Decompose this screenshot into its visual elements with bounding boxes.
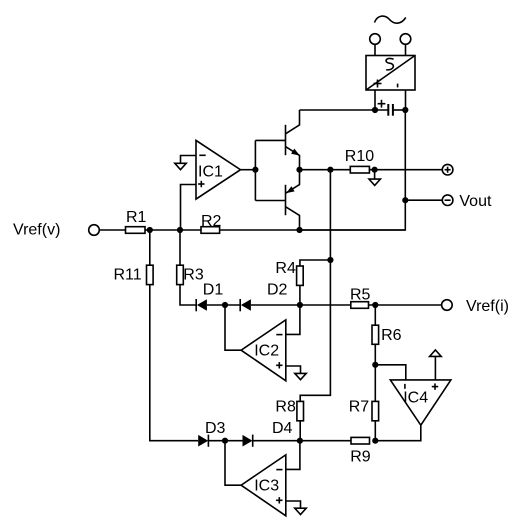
wire right vertical to Vout minus node — [404, 110, 406, 200]
wire feedback vertical line — [300, 170, 330, 402]
junction R10 rail / feedback tap — [327, 167, 333, 173]
AC wave symbol — [375, 16, 406, 23]
svg-text:Vref(i): Vref(i) — [466, 298, 509, 315]
svg-text:IC1: IC1 — [198, 163, 223, 180]
svg-text:R1: R1 — [126, 209, 147, 226]
wire IC4 inverting input to node F — [375, 365, 406, 380]
junction R10 right / ground tap — [372, 167, 378, 173]
terminal AC left — [370, 34, 381, 56]
wire D1 to node C — [207, 304, 240, 306]
op-amp IC4 — [390, 380, 451, 425]
wire IC4 non-inverting input up — [434, 356, 436, 380]
svg-text:D1: D1 — [203, 282, 224, 299]
junction node H (D4/R8/IC3-) — [297, 438, 303, 444]
wire IC1 inverting input — [181, 156, 197, 164]
wire D2 to R5 — [251, 304, 351, 306]
junction node B (R2/R3/IC1+) — [177, 227, 183, 233]
wire R3 branch down — [179, 230, 181, 265]
wire R4 top to feedback line — [300, 260, 331, 266]
junction node D (D2/R4/IC2-) — [297, 302, 303, 308]
wire base feed vertical — [254, 140, 256, 200]
wire Vout minus terminal lead — [405, 199, 442, 201]
svg-text:IC2: IC2 — [254, 342, 279, 359]
wire IC2 output up to node C — [225, 305, 241, 350]
wire IC1 output — [241, 169, 256, 171]
wire R1 to node B — [145, 229, 201, 231]
resistor R11 — [114, 265, 154, 284]
resistor R9 — [350, 437, 371, 465]
power supply PS1 (AC/DC converter box) — [366, 56, 415, 91]
svg-text:D3: D3 — [205, 420, 226, 437]
junction IC1 output / base feed — [252, 167, 258, 173]
junction R9 right node — [372, 438, 378, 444]
wire IC3 non-inverting input to ground — [286, 501, 301, 508]
svg-text:Vref(v): Vref(v) — [13, 221, 60, 238]
svg-text:R6: R6 — [381, 327, 402, 344]
terminal Vout plus — [442, 164, 453, 175]
resistor R10 — [345, 148, 374, 173]
diode D1 — [196, 282, 223, 312]
wire R5 to Vref(i) terminal — [369, 304, 442, 306]
svg-text:R8: R8 — [275, 399, 296, 416]
svg-text:R5: R5 — [350, 287, 371, 304]
svg-text:R7: R7 — [349, 399, 370, 416]
wire D3 to node G — [208, 440, 242, 442]
svg-text:IC4: IC4 — [403, 389, 428, 406]
wire IC2 inverting input up to node D — [286, 305, 300, 334]
resistor R8 — [275, 399, 303, 421]
svg-text:D2: D2 — [267, 282, 288, 299]
wire R6 branch down — [374, 305, 376, 325]
wire D4 to R9 — [253, 440, 351, 442]
svg-text:IC3: IC3 — [254, 477, 279, 494]
svg-text:R11: R11 — [114, 266, 142, 283]
diode D2 — [240, 282, 287, 312]
wire R10 ground stem — [374, 170, 376, 179]
svg-text:D4: D4 — [272, 420, 293, 437]
diode D3 — [198, 420, 225, 447]
resistor R2 — [201, 213, 222, 233]
junction Q2 collector on bottom rail — [296, 227, 302, 233]
ground IC3 — [295, 508, 306, 514]
wire capacitor to right node — [394, 109, 406, 111]
junction node C (D1/D2/IC2 out) — [222, 302, 228, 308]
terminal AC right — [400, 34, 411, 56]
svg-text:R2: R2 — [201, 213, 222, 230]
junction Vout minus node — [402, 197, 408, 203]
terminal Vout minus — [442, 195, 453, 206]
wire R4 branch up — [299, 285, 301, 305]
ground IC1 — [175, 163, 186, 169]
svg-text:R4: R4 — [275, 260, 296, 277]
wire Vout minus node down and left along bottom rail — [300, 200, 406, 230]
junction emitters node — [296, 167, 302, 173]
svg-text:R10: R10 — [345, 148, 374, 165]
wire collector rail to capacitor — [300, 109, 388, 111]
wire PS1 right output down — [405, 90, 407, 110]
wire IC3 inverting input up to node H — [286, 441, 300, 470]
junction capacitor left — [372, 107, 378, 113]
junction node G (D3/D4/IC3 out) — [222, 438, 228, 444]
wire emitters node to plus terminal — [300, 169, 443, 171]
capacitor C1 (polarized) — [378, 100, 393, 116]
terminal Vref(v) — [89, 225, 100, 236]
op-amp IC1 — [196, 140, 241, 199]
junction capacitor right — [402, 107, 408, 113]
terminal Vref(i) — [442, 300, 453, 311]
transistor Q2 (PNP bottom) — [255, 170, 299, 230]
wire PS1 left output down — [374, 90, 376, 110]
power arrow IC4 supply — [430, 350, 442, 356]
resistor R7 — [349, 399, 379, 421]
wire R3 down to D1 row — [180, 285, 196, 305]
wire IC3 output up to node G — [225, 441, 241, 486]
svg-text:Vout: Vout — [459, 193, 492, 210]
op-amp IC3 — [241, 455, 286, 516]
wire R11 branch down — [149, 230, 151, 265]
ground IC2 — [295, 373, 306, 379]
diode D4 — [243, 420, 293, 447]
junction node F (R6/R7/IC4-) — [372, 362, 378, 368]
junction R4 tap on feedback line — [327, 257, 333, 263]
op-amp IC2 — [241, 320, 286, 381]
resistor R3 — [177, 265, 204, 284]
resistor R6 — [372, 325, 402, 344]
transistor Q1 (NPN top) — [255, 110, 300, 170]
resistor R5 — [350, 287, 371, 309]
wire R6 to R7 — [374, 344, 376, 401]
junction node E (R5/R6) — [372, 302, 378, 308]
wire terminal to R1 — [99, 229, 125, 231]
resistor R1 — [126, 209, 147, 234]
junction node A (R1/R11) — [147, 227, 153, 233]
resistor R4 — [275, 260, 303, 286]
wire R7 down to R9 node — [374, 421, 376, 441]
wire R11 down to D3 row — [150, 285, 198, 441]
svg-text:R3: R3 — [183, 266, 204, 283]
wire R8 down to node H — [299, 421, 301, 441]
wire IC2 non-inverting input to ground — [286, 366, 301, 373]
wire R2 along bottom rail — [220, 229, 406, 231]
wire IC1 non-inverting input down to node B — [181, 185, 197, 231]
svg-text:R9: R9 — [350, 449, 371, 466]
wire IC4 output down to R9 node — [375, 425, 421, 441]
ground R10 — [369, 179, 380, 185]
